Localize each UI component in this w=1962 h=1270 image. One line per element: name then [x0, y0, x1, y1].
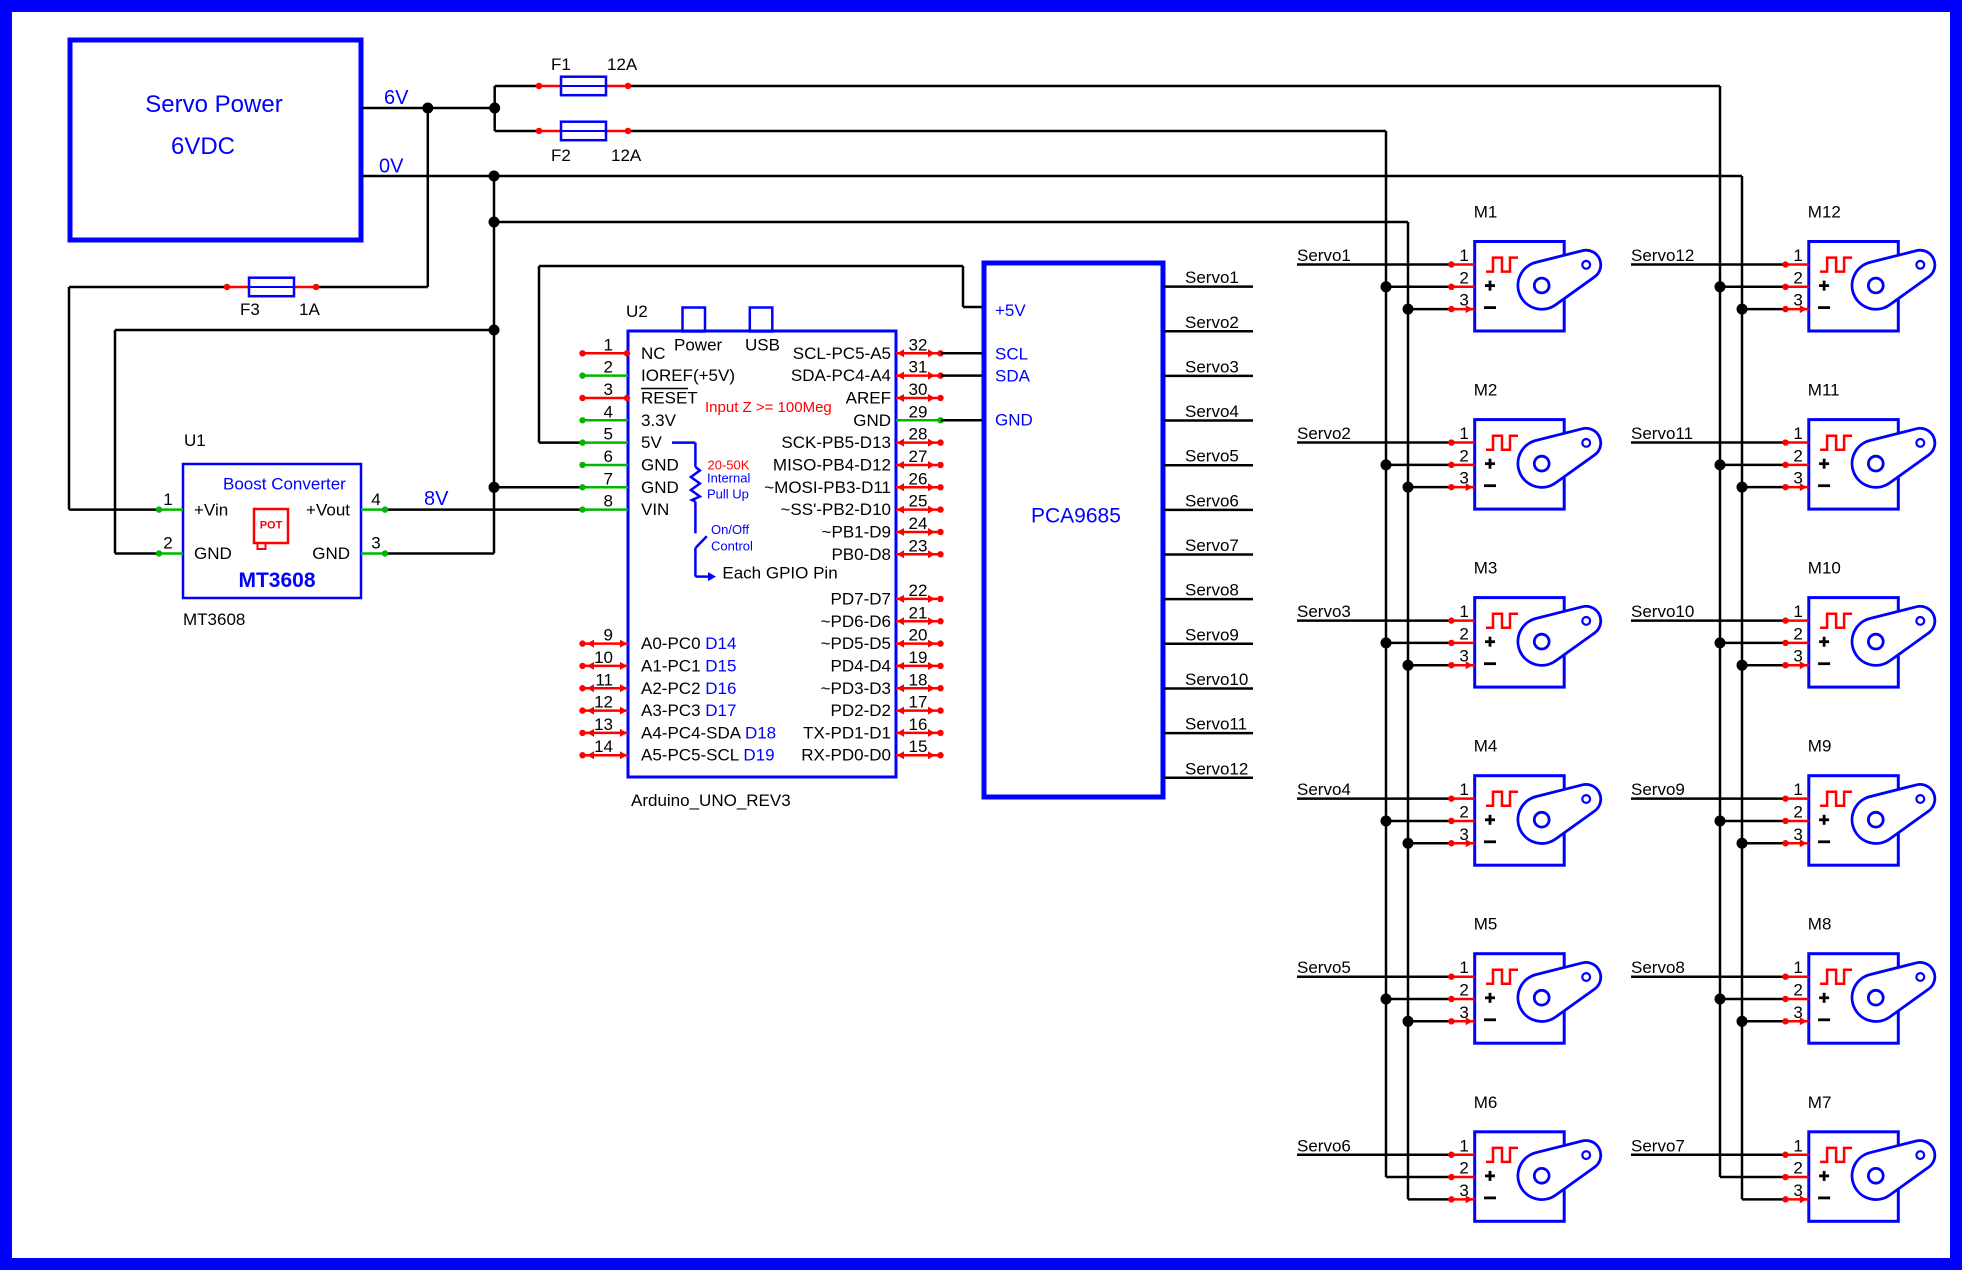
svg-text:2: 2 — [163, 534, 172, 553]
svg-text:8: 8 — [604, 492, 613, 511]
svg-text:6VDC: 6VDC — [171, 133, 235, 160]
svg-text:2: 2 — [604, 358, 613, 377]
svg-text:Servo2: Servo2 — [1185, 313, 1239, 332]
svg-text:A0-PC0 D14: A0-PC0 D14 — [641, 634, 736, 653]
svg-text:Servo5: Servo5 — [1297, 958, 1351, 977]
svg-text:7: 7 — [604, 469, 613, 488]
svg-text:10: 10 — [594, 648, 613, 667]
svg-text:3: 3 — [1793, 825, 1802, 844]
svg-text:AREF: AREF — [846, 388, 891, 407]
svg-text:2: 2 — [1459, 802, 1468, 821]
svg-text:1: 1 — [1793, 780, 1802, 799]
svg-text:3: 3 — [1459, 1181, 1468, 1200]
svg-text:Servo12: Servo12 — [1631, 246, 1694, 265]
svg-text:3: 3 — [1793, 291, 1802, 310]
svg-text:2: 2 — [1793, 268, 1802, 287]
svg-text:2: 2 — [1459, 268, 1468, 287]
svg-text:PB0-D8: PB0-D8 — [831, 545, 891, 564]
svg-text:Servo2: Servo2 — [1297, 424, 1351, 443]
svg-text:15: 15 — [909, 737, 928, 756]
svg-text:F2: F2 — [551, 146, 571, 165]
svg-text:24: 24 — [909, 514, 928, 533]
svg-text:8V: 8V — [424, 488, 449, 510]
svg-text:28: 28 — [909, 425, 928, 444]
svg-text:PD2-D2: PD2-D2 — [831, 701, 891, 720]
svg-text:Servo6: Servo6 — [1185, 491, 1239, 510]
svg-text:PD4-D4: PD4-D4 — [831, 656, 891, 675]
svg-text:RESET: RESET — [641, 388, 698, 407]
svg-text:3: 3 — [1459, 647, 1468, 666]
svg-text:2: 2 — [1459, 1159, 1468, 1178]
svg-text:Servo1: Servo1 — [1185, 268, 1239, 287]
svg-text:Servo8: Servo8 — [1631, 958, 1685, 977]
svg-text:M8: M8 — [1808, 915, 1832, 934]
svg-text:IOREF(+5V): IOREF(+5V) — [641, 366, 735, 385]
svg-text:POT: POT — [260, 520, 283, 532]
svg-text:M12: M12 — [1808, 203, 1841, 222]
svg-text:6V: 6V — [384, 87, 409, 109]
svg-text:GND: GND — [641, 455, 679, 474]
svg-text:Servo11: Servo11 — [1185, 715, 1247, 734]
svg-text:3: 3 — [1459, 469, 1468, 488]
svg-text:VIN: VIN — [641, 500, 669, 519]
svg-text:9: 9 — [604, 626, 613, 645]
svg-text:3: 3 — [1459, 1003, 1468, 1022]
svg-text:SCL: SCL — [995, 345, 1028, 364]
svg-text:12: 12 — [594, 693, 613, 712]
svg-text:6: 6 — [604, 447, 613, 466]
svg-text:Servo11: Servo11 — [1631, 424, 1693, 443]
svg-text:2: 2 — [1793, 446, 1802, 465]
svg-text:GND: GND — [641, 478, 679, 497]
svg-text:2: 2 — [1459, 446, 1468, 465]
svg-text:Pull Up: Pull Up — [707, 487, 749, 502]
svg-text:1: 1 — [1459, 424, 1468, 443]
svg-text:F1: F1 — [551, 55, 571, 74]
svg-text:~PD3-D3: ~PD3-D3 — [821, 679, 891, 698]
svg-text:3: 3 — [1459, 291, 1468, 310]
svg-text:18: 18 — [909, 670, 928, 689]
svg-text:1A: 1A — [299, 300, 320, 319]
svg-text:1: 1 — [1459, 958, 1468, 977]
svg-text:21: 21 — [909, 603, 928, 622]
svg-text:PD7-D7: PD7-D7 — [831, 589, 891, 608]
svg-text:29: 29 — [909, 402, 928, 421]
svg-text:Servo9: Servo9 — [1631, 780, 1685, 799]
svg-text:Servo10: Servo10 — [1631, 602, 1694, 621]
svg-text:1: 1 — [1459, 246, 1468, 265]
svg-text:2: 2 — [1793, 802, 1802, 821]
svg-text:27: 27 — [909, 447, 928, 466]
svg-text:+5V: +5V — [995, 301, 1026, 320]
svg-text:3.3V: 3.3V — [641, 411, 677, 430]
svg-text:25: 25 — [909, 492, 928, 511]
svg-text:M4: M4 — [1474, 737, 1498, 756]
svg-text:~SS'-PB2-D10: ~SS'-PB2-D10 — [781, 500, 892, 519]
svg-text:Servo4: Servo4 — [1297, 780, 1351, 799]
svg-text:Servo3: Servo3 — [1185, 357, 1239, 376]
svg-text:U1: U1 — [184, 431, 206, 450]
svg-text:F3: F3 — [240, 300, 260, 319]
svg-text:11: 11 — [595, 670, 613, 689]
svg-text:1: 1 — [1793, 602, 1802, 621]
svg-text:A3-PC3 D17: A3-PC3 D17 — [641, 701, 736, 720]
svg-text:3: 3 — [604, 380, 613, 399]
svg-text:M5: M5 — [1474, 915, 1498, 934]
svg-text:13: 13 — [594, 715, 613, 734]
svg-text:2: 2 — [1459, 981, 1468, 1000]
svg-text:Servo6: Servo6 — [1297, 1136, 1351, 1155]
svg-text:Power: Power — [674, 336, 723, 355]
svg-text:1: 1 — [1459, 602, 1468, 621]
svg-text:TX-PD1-D1: TX-PD1-D1 — [803, 723, 891, 742]
svg-text:Servo8: Servo8 — [1185, 581, 1239, 600]
svg-text:22: 22 — [909, 581, 928, 600]
svg-text:GND: GND — [853, 411, 891, 430]
svg-text:Internal: Internal — [707, 471, 750, 486]
svg-text:Boost Converter: Boost Converter — [223, 475, 346, 494]
svg-text:~PD6-D6: ~PD6-D6 — [821, 612, 891, 631]
svg-text:Servo5: Servo5 — [1185, 447, 1239, 466]
svg-text:RX-PD0-D0: RX-PD0-D0 — [801, 746, 891, 765]
svg-text:2: 2 — [1793, 624, 1802, 643]
svg-text:2: 2 — [1793, 1159, 1802, 1178]
svg-text:Servo1: Servo1 — [1297, 246, 1351, 265]
svg-text:GND: GND — [312, 544, 350, 563]
svg-text:M2: M2 — [1474, 381, 1498, 400]
svg-text:31: 31 — [909, 358, 928, 377]
svg-text:1: 1 — [1459, 780, 1468, 799]
svg-text:M11: M11 — [1808, 381, 1840, 400]
svg-text:3: 3 — [1793, 1181, 1802, 1200]
svg-text:20: 20 — [909, 626, 928, 645]
svg-text:2: 2 — [1793, 981, 1802, 1000]
svg-text:4: 4 — [371, 490, 380, 509]
svg-text:2: 2 — [1459, 624, 1468, 643]
svg-text:3: 3 — [1793, 469, 1802, 488]
svg-text:1: 1 — [604, 335, 613, 354]
svg-text:14: 14 — [594, 737, 613, 756]
svg-text:MISO-PB4-D12: MISO-PB4-D12 — [773, 455, 891, 474]
svg-text:On/Off: On/Off — [711, 522, 749, 537]
svg-text:3: 3 — [1459, 825, 1468, 844]
svg-text:Servo4: Servo4 — [1185, 402, 1239, 421]
svg-text:M10: M10 — [1808, 559, 1841, 578]
svg-text:3: 3 — [371, 534, 380, 553]
svg-text:MT3608: MT3608 — [238, 569, 315, 592]
svg-text:~MOSI-PB3-D11: ~MOSI-PB3-D11 — [764, 478, 891, 497]
svg-text:A2-PC2 D16: A2-PC2 D16 — [641, 679, 736, 698]
svg-text:Control: Control — [711, 539, 753, 554]
svg-text:Servo3: Servo3 — [1297, 602, 1351, 621]
svg-text:1: 1 — [1793, 246, 1802, 265]
svg-text:~PB1-D9: ~PB1-D9 — [822, 522, 891, 541]
svg-text:USB: USB — [745, 336, 780, 355]
svg-text:19: 19 — [909, 648, 928, 667]
svg-text:Servo Power: Servo Power — [145, 91, 282, 118]
svg-text:GND: GND — [194, 544, 232, 563]
svg-text:Each GPIO Pin: Each GPIO Pin — [722, 564, 837, 583]
svg-text:16: 16 — [909, 715, 928, 734]
svg-text:U2: U2 — [626, 302, 648, 321]
svg-text:SDA-PC4-A4: SDA-PC4-A4 — [791, 366, 891, 385]
svg-text:12A: 12A — [611, 146, 642, 165]
svg-text:3: 3 — [1793, 1003, 1802, 1022]
svg-text:Input Z >= 100Meg: Input Z >= 100Meg — [705, 399, 832, 416]
svg-text:5V: 5V — [641, 433, 662, 452]
svg-text:SDA: SDA — [995, 367, 1031, 386]
svg-text:SCK-PB5-D13: SCK-PB5-D13 — [781, 433, 891, 452]
svg-text:4: 4 — [604, 402, 613, 421]
svg-text:3: 3 — [1793, 647, 1802, 666]
svg-text:NC: NC — [641, 344, 666, 363]
svg-text:GND: GND — [995, 411, 1033, 430]
svg-text:~PD5-D5: ~PD5-D5 — [821, 634, 891, 653]
svg-text:M9: M9 — [1808, 737, 1832, 756]
svg-text:M1: M1 — [1474, 203, 1498, 222]
svg-text:Arduino_UNO_REV3: Arduino_UNO_REV3 — [631, 791, 791, 810]
svg-text:17: 17 — [909, 693, 928, 712]
svg-text:M6: M6 — [1474, 1093, 1498, 1112]
svg-text:Servo7: Servo7 — [1631, 1136, 1685, 1155]
svg-text:0V: 0V — [379, 156, 404, 178]
svg-text:M7: M7 — [1808, 1093, 1832, 1112]
svg-text:Servo7: Servo7 — [1185, 536, 1239, 555]
svg-text:Servo10: Servo10 — [1185, 670, 1248, 689]
svg-text:M3: M3 — [1474, 559, 1498, 578]
svg-text:MT3608: MT3608 — [183, 610, 245, 629]
svg-text:+Vout: +Vout — [306, 501, 350, 520]
svg-text:1: 1 — [1793, 424, 1802, 443]
svg-text:Servo9: Servo9 — [1185, 625, 1239, 644]
svg-text:5: 5 — [604, 425, 613, 444]
svg-text:A1-PC1 D15: A1-PC1 D15 — [641, 656, 736, 675]
svg-text:+Vin: +Vin — [194, 501, 228, 520]
svg-text:1: 1 — [163, 490, 172, 509]
svg-text:A4-PC4-SDA D18: A4-PC4-SDA D18 — [641, 723, 776, 742]
svg-text:30: 30 — [909, 380, 928, 399]
svg-text:Servo12: Servo12 — [1185, 759, 1248, 778]
svg-text:1: 1 — [1459, 1136, 1468, 1155]
svg-text:32: 32 — [909, 335, 928, 354]
svg-text:SCL-PC5-A5: SCL-PC5-A5 — [793, 344, 891, 363]
svg-text:1: 1 — [1793, 958, 1802, 977]
svg-text:A5-PC5-SCL D19: A5-PC5-SCL D19 — [641, 746, 775, 765]
svg-text:26: 26 — [909, 469, 928, 488]
svg-text:12A: 12A — [607, 55, 638, 74]
svg-text:1: 1 — [1793, 1136, 1802, 1155]
svg-text:23: 23 — [909, 536, 928, 555]
svg-text:PCA9685: PCA9685 — [1031, 505, 1121, 528]
